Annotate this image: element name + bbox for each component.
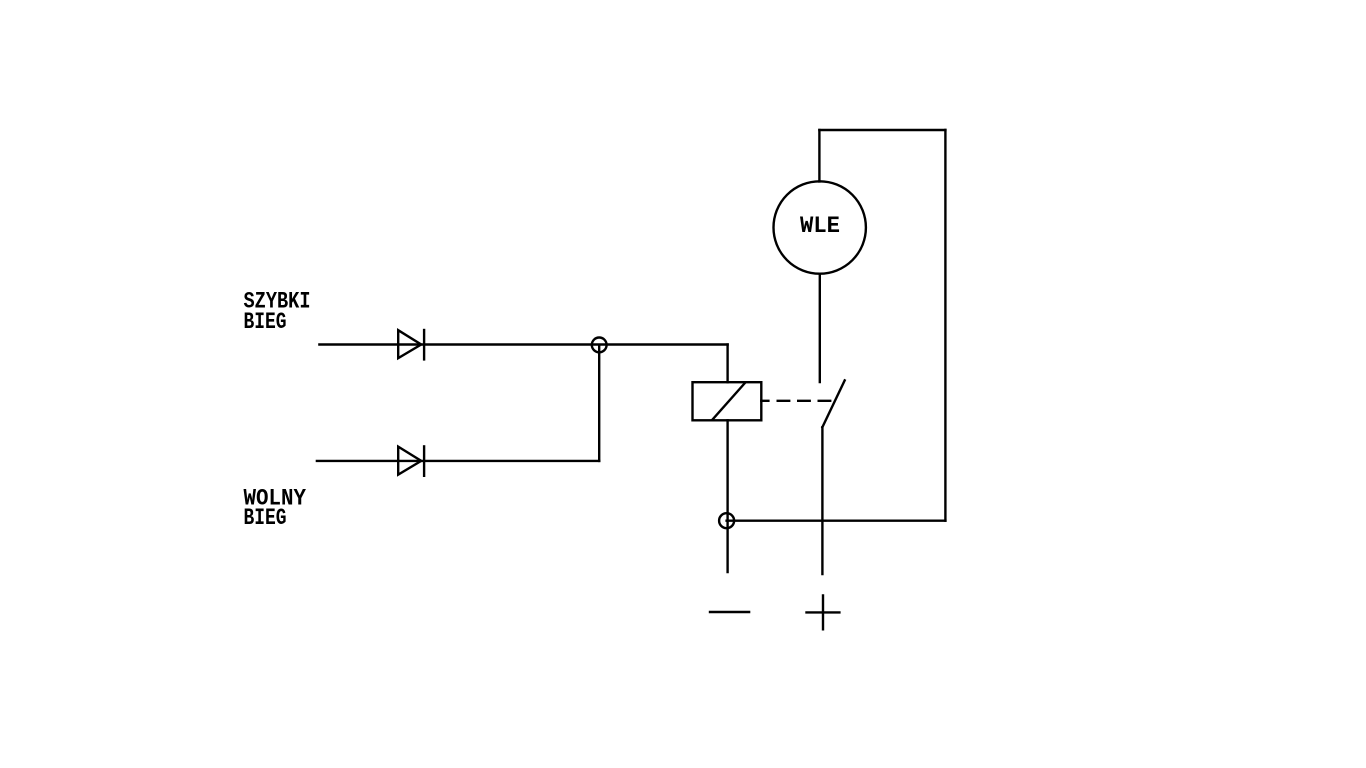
wire junction A down xyxy=(598,345,600,461)
wire right vertical xyxy=(944,130,946,521)
plus terminal xyxy=(807,596,840,630)
wire relay top lead xyxy=(726,345,728,383)
wire switch lower lead xyxy=(821,427,823,574)
svg-text:BIEG: BIEG xyxy=(244,505,287,532)
switch S1 blade xyxy=(822,380,844,427)
wire lamp top lead xyxy=(818,130,820,182)
svg-text:WLE: WLE xyxy=(800,213,840,239)
diode D1 xyxy=(398,330,421,358)
relay coil K1 xyxy=(693,382,762,420)
wire top horizontal xyxy=(819,129,945,131)
wire bottom horizontal xyxy=(727,520,946,522)
diode D2 xyxy=(398,447,421,475)
node A xyxy=(592,338,607,353)
wire relay bottom lead xyxy=(726,420,728,572)
wire SZYBKI input xyxy=(319,343,727,345)
node B xyxy=(719,513,734,528)
minus terminal xyxy=(710,611,749,613)
lamp WLE xyxy=(774,181,866,273)
wire relay right stub xyxy=(761,400,768,402)
wire WOLNY input xyxy=(317,460,599,462)
svg-text:BIEG: BIEG xyxy=(244,309,287,336)
wire mechanical link (dashed) xyxy=(778,400,831,402)
wire lamp bottom lead to switch xyxy=(819,274,821,382)
